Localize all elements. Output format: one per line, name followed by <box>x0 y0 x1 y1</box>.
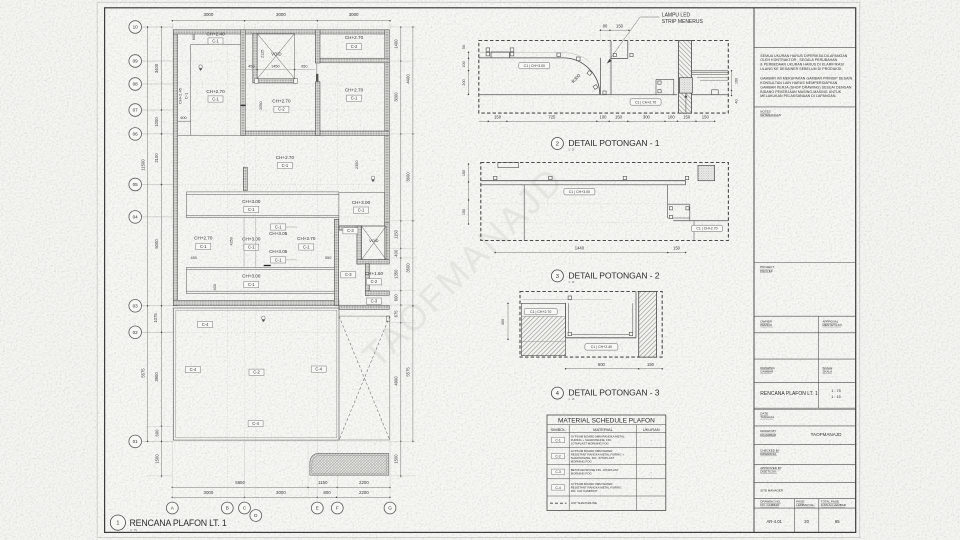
material table header <box>558 417 655 424</box>
svg-text:SIMBOL: SIMBOL <box>551 427 567 432</box>
svg-text:65: 65 <box>835 519 840 524</box>
wall vertical F middle <box>334 219 338 305</box>
svg-text:-: - <box>651 470 652 474</box>
label PROJECT PROYEK <box>760 265 774 273</box>
svg-text:C-3: C-3 <box>345 272 352 277</box>
detail 2 bottom dims <box>494 246 686 254</box>
detail 1 title <box>551 138 659 152</box>
title block vertical rules <box>795 316 819 532</box>
svg-text:100: 100 <box>668 115 676 120</box>
detail 3 light line <box>521 299 612 301</box>
svg-text:50: 50 <box>462 45 466 49</box>
wall right exterior lower <box>385 223 389 260</box>
detail 1 bottom dims <box>479 115 716 123</box>
svg-text:C-3: C-3 <box>347 228 354 233</box>
svg-text:20: 20 <box>804 519 809 524</box>
svg-text:CH+2.70: CH+2.70 <box>297 236 316 241</box>
svg-text:2100: 2100 <box>154 153 159 163</box>
svg-text:600: 600 <box>192 34 196 40</box>
detail 1 left step <box>491 52 509 58</box>
extension ticks right dims <box>391 27 416 476</box>
svg-text:2050: 2050 <box>259 101 263 109</box>
svg-text:4900: 4900 <box>394 376 399 386</box>
room label CH+2.45 C-1 rotated <box>178 87 189 104</box>
room label CH+2.70 C-2 topright <box>345 35 364 50</box>
svg-text:DIGAMBAR: DIGAMBAR <box>760 433 777 437</box>
svg-text:LEMBAR KE-: LEMBAR KE- <box>796 503 814 507</box>
wall band below C-3 <box>339 226 362 230</box>
svg-text:C-2: C-2 <box>351 44 358 49</box>
label DRAWING GAMBAR <box>760 366 775 374</box>
detail 1 construction lines <box>493 42 678 112</box>
room label CH+2.70 C-1 middle <box>276 155 295 169</box>
svg-text:3000: 3000 <box>204 490 214 495</box>
dim 550 <box>325 256 331 260</box>
material row C-1 <box>552 435 652 446</box>
svg-text:550: 550 <box>325 256 331 260</box>
svg-text:1500: 1500 <box>394 454 399 464</box>
svg-text:1150: 1150 <box>394 229 399 239</box>
svg-text:C1 | CH+2.70: C1 | CH+2.70 <box>530 310 551 314</box>
svg-text:5575: 5575 <box>140 368 145 378</box>
wall left exterior <box>173 30 177 306</box>
svg-text:KETERANGAN: KETERANGAN <box>760 113 781 117</box>
svg-text:5000: 5000 <box>154 239 159 249</box>
svg-text:800: 800 <box>323 490 331 495</box>
svg-text:TAOFMANAJD: TAOFMANAJD <box>811 432 842 437</box>
title block footer headers <box>760 500 847 508</box>
svg-text:150: 150 <box>673 246 681 251</box>
svg-text:1 : 75: 1 : 75 <box>831 389 841 393</box>
partition lines bathroom upper-left <box>178 44 241 135</box>
svg-text:1350: 1350 <box>394 269 399 279</box>
detail 1 led coffer <box>600 41 633 95</box>
svg-text:SKALA: SKALA <box>823 369 833 373</box>
drain marker upper-left <box>199 65 203 71</box>
detail 1 dashed border <box>479 41 729 114</box>
material table column headers <box>551 427 660 432</box>
svg-text:CH+2.70: CH+2.70 <box>345 88 364 93</box>
svg-text:CH+3.00: CH+3.00 <box>242 274 261 279</box>
svg-text:1500: 1500 <box>155 454 160 464</box>
svg-text:3000: 3000 <box>204 12 214 17</box>
dimension left outer column <box>140 26 148 442</box>
svg-text:3500: 3500 <box>406 263 411 273</box>
svg-text:450: 450 <box>191 256 197 260</box>
dim 450 kitchen <box>191 256 197 260</box>
svg-text:150: 150 <box>647 362 655 367</box>
void 1 cross <box>257 34 294 79</box>
svg-text:RENCANA PLAFON LT. 1: RENCANA PLAFON LT. 1 <box>130 518 227 528</box>
svg-text:CH+2.70: CH+2.70 <box>194 235 213 240</box>
svg-text:400: 400 <box>394 249 399 257</box>
extension ticks left dims <box>146 426 173 476</box>
detail 3 label C1 CH+2.40 <box>585 344 618 350</box>
svg-text:80: 80 <box>603 24 608 29</box>
svg-text:400: 400 <box>213 284 217 290</box>
svg-text:LAMPU LED: LAMPU LED <box>662 12 691 18</box>
porch hatched <box>310 453 389 475</box>
svg-text:DISETUJUI: DISETUJUI <box>760 470 776 474</box>
label APPROVED BY DISETUJUI <box>760 466 782 474</box>
grid row circles 10-01 <box>129 21 142 448</box>
svg-text:C1 | CH+3.00: C1 | CH+3.00 <box>569 190 590 194</box>
dim 600 niche <box>192 34 196 40</box>
dim 450/1450/950 void <box>245 64 315 70</box>
svg-text:5575: 5575 <box>406 367 411 377</box>
room label CH+3.05 C-1 lower <box>269 249 288 263</box>
svg-text:VOID: VOID <box>369 239 379 243</box>
svg-text:C1 | CH+2.40: C1 | CH+2.40 <box>591 345 612 349</box>
svg-text:CH+3.05: CH+3.05 <box>269 249 288 254</box>
svg-text:C-3: C-3 <box>555 470 561 474</box>
svg-text:5650: 5650 <box>235 480 245 485</box>
detail 1 lampu led note <box>607 12 704 63</box>
label SITE MANAGER <box>760 488 784 492</box>
svg-text:PROYEK: PROYEK <box>760 269 773 273</box>
svg-text:3900: 3900 <box>154 372 159 382</box>
detail 2 stipple block <box>698 166 715 181</box>
svg-text:DETAIL POTONGAN - 1: DETAIL POTONGAN - 1 <box>568 138 659 148</box>
detail 2 right step <box>668 185 729 241</box>
svg-text:1400: 1400 <box>394 39 399 49</box>
ceiling strip row05 <box>186 192 339 218</box>
svg-text:GAMBAR INI MERUPAKAN GAMBAR PR: GAMBAR INI MERUPAKAN GAMBAR PRINSIP DESA… <box>760 76 853 80</box>
room label CH+2.70 C-1 right <box>345 88 364 102</box>
svg-text:C-2: C-2 <box>278 107 285 112</box>
svg-text:DIPERIKSA: DIPERIKSA <box>760 452 776 456</box>
svg-text:CH+2.70: CH+2.70 <box>276 155 295 160</box>
svg-text:C-4: C-4 <box>190 367 197 372</box>
svg-text:450: 450 <box>248 64 254 68</box>
svg-text:725: 725 <box>548 115 556 120</box>
material row C-3 <box>552 468 652 476</box>
dim 400 strip <box>213 284 217 290</box>
svg-text:AR-4.01: AR-4.01 <box>767 519 783 524</box>
room label C-3 mid <box>341 272 356 278</box>
svg-text:1000: 1000 <box>154 117 159 127</box>
detail 3 hatched mass <box>521 303 565 355</box>
svg-text:1440: 1440 <box>575 246 585 251</box>
title block divider <box>753 8 755 533</box>
label VOID 1 <box>271 52 281 57</box>
detail 3 ceiling step <box>566 292 636 338</box>
svg-text:MELAKUKAN PELAKSANAAN DI LAPAN: MELAKUKAN PELAKSANAAN DI LAPANGAN. <box>760 94 836 98</box>
room label CH+2.70 C-2 void <box>272 99 291 113</box>
room label C-4 hall <box>198 321 213 327</box>
svg-text:MORNING FOG: MORNING FOG <box>571 472 593 476</box>
svg-text:MENYETUJUI: MENYETUJUI <box>823 323 842 327</box>
title block disclaimer paragraphs <box>760 54 853 98</box>
wall right exterior upper <box>385 30 389 223</box>
detail 1 label C1 CH+3.00 <box>519 62 550 68</box>
detail 1 hanger squares left <box>486 48 598 90</box>
svg-text:150: 150 <box>616 24 624 29</box>
wall row03 A-F <box>173 300 339 305</box>
title block drawing name and scale <box>760 389 840 399</box>
room label C-4 bottom <box>248 421 263 427</box>
dim 4250 <box>230 237 234 245</box>
svg-text:600: 600 <box>394 294 399 302</box>
svg-text:C-1: C-1 <box>212 96 219 101</box>
detail 1 slab lines right <box>692 71 729 95</box>
detail 3 bottom dims <box>565 362 663 370</box>
svg-text:DETAIL POTONGAN - 3: DETAIL POTONGAN - 3 <box>568 388 659 398</box>
svg-text:C-1: C-1 <box>248 282 255 287</box>
svg-text:3000: 3000 <box>276 490 286 495</box>
door opening wall E <box>316 63 318 82</box>
svg-text:1 : 16: 1 : 16 <box>568 281 575 284</box>
dimension bottom row1 5650/1150/2200 <box>172 480 391 488</box>
svg-text:GAMBAR KERJA (SHOP DRAWING) SE: GAMBAR KERJA (SHOP DRAWING) SESUAI DENGA… <box>760 85 852 89</box>
detail 2 construction lines <box>482 204 672 223</box>
room label CH+3.00 C-1 strip2 <box>242 274 261 288</box>
label DATE TANGGAL <box>760 412 774 420</box>
svg-text:C-1: C-1 <box>351 96 358 101</box>
wall vertical C upper <box>241 30 245 136</box>
material row shadowline <box>550 501 652 505</box>
svg-text:600: 600 <box>155 429 160 437</box>
partition lines kitchen rooms <box>244 218 256 268</box>
svg-text:1: 1 <box>116 521 119 527</box>
svg-text:C-1: C-1 <box>555 438 561 442</box>
svg-text:3000: 3000 <box>276 12 286 17</box>
detail 2 hanger squares <box>494 176 689 179</box>
svg-text:VOID: VOID <box>271 52 281 57</box>
svg-text:07: 07 <box>133 108 139 113</box>
room label CH+2.70 C-1 k1 <box>194 235 213 249</box>
detail 3 wall hatch <box>639 292 657 358</box>
svg-text:150: 150 <box>702 115 710 120</box>
grid row lines 01-10 <box>142 27 393 441</box>
svg-text:150: 150 <box>494 115 502 120</box>
detail 2 top notch <box>498 163 519 168</box>
detail 1 R300 text <box>571 73 582 85</box>
svg-text:150: 150 <box>615 115 623 120</box>
room label C-1 CH+3.05 upper <box>269 224 288 236</box>
svg-text:600: 600 <box>598 362 606 367</box>
detail 3 title <box>551 387 659 401</box>
dimension right inner column <box>394 26 402 477</box>
svg-text:C-1: C-1 <box>212 38 219 43</box>
svg-text:C-3: C-3 <box>371 299 378 304</box>
door mark wall C <box>240 104 246 106</box>
detail 2 label C1 CH+3.00 <box>564 189 595 195</box>
watermark TAOFMANAJD <box>354 158 571 375</box>
svg-text:UKURAN: UKURAN <box>643 427 660 432</box>
svg-text:3400: 3400 <box>154 63 159 73</box>
svg-text:2350: 2350 <box>355 160 359 168</box>
room label CH+3.00 C-1 strip1 <box>242 199 261 213</box>
svg-text:03: 03 <box>133 303 139 308</box>
dimension left inner column <box>153 26 162 477</box>
svg-text:600: 600 <box>180 116 186 120</box>
svg-text:150: 150 <box>683 115 691 120</box>
svg-text:09: 09 <box>133 59 139 64</box>
svg-text:-: - <box>651 438 652 442</box>
svg-text:KONSULTAN LAIN HARUS MEMPERSIA: KONSULTAN LAIN HARUS MEMPERSIAPKAN <box>760 81 837 85</box>
label OWNER PEMILIK <box>760 320 773 328</box>
svg-text:100: 100 <box>600 115 608 120</box>
svg-text:GAMBAR: GAMBAR <box>760 369 774 373</box>
room label C-4 right <box>311 366 326 372</box>
living room outline <box>174 308 340 440</box>
svg-text:3000: 3000 <box>394 92 399 102</box>
svg-text:2: 2 <box>556 142 559 148</box>
material row C-2 <box>552 449 652 464</box>
svg-text:C-2: C-2 <box>371 279 378 284</box>
detail 2 dims 150/150 <box>462 163 469 225</box>
detail 2 ceiling band <box>481 181 686 185</box>
svg-text:& PERBEDAAN UKURAN HARUS DI KL: & PERBEDAAN UKURAN HARUS DI KLARIFIKASI <box>760 63 844 67</box>
grid column lines A-G <box>172 24 390 503</box>
svg-text:STRIP MENERUS: STRIP MENERUS <box>662 19 704 25</box>
svg-text:3: 3 <box>556 274 559 280</box>
void1 band end caps <box>255 79 298 84</box>
detail 1 dims 50/100/200 <box>462 45 469 95</box>
svg-text:C-4: C-4 <box>202 322 209 327</box>
wall void1 left <box>253 33 257 83</box>
svg-text:FIN. CAT KAMPROT: FIN. CAT KAMPROT <box>571 489 598 493</box>
detail 1 curtain box <box>656 79 674 94</box>
svg-text:300: 300 <box>501 319 505 325</box>
svg-text:RENCANA PLAFON LT. 1: RENCANA PLAFON LT. 1 <box>760 391 818 397</box>
svg-text:CH+2.70: CH+2.70 <box>345 35 364 40</box>
svg-text:150: 150 <box>462 209 466 215</box>
svg-text:08: 08 <box>133 82 139 87</box>
svg-text:-: - <box>651 501 652 505</box>
svg-text:JOTAPLAST MORNING FOG: JOTAPLAST MORNING FOG <box>571 442 610 446</box>
room label CH+2.70 C-1 upperleft <box>206 89 225 102</box>
detail 1 ceiling CH+2.70 line <box>479 94 677 96</box>
svg-text:MORNING FOG: MORNING FOG <box>571 459 593 463</box>
label NOTES KETERANGAN <box>760 109 781 117</box>
svg-text:01: 01 <box>133 439 139 444</box>
dimension top 3000/3000/3000 <box>172 12 391 30</box>
plan title RENCANA PLAFON LT. 1 <box>110 515 227 532</box>
ceiling strip row03-04 <box>186 267 334 293</box>
svg-text:950: 950 <box>301 64 307 68</box>
room label C-3 upper <box>343 228 358 234</box>
detail 1 label C1 CH+2.70 <box>630 99 661 105</box>
wall vertical E upper <box>315 30 320 136</box>
svg-text:C-2: C-2 <box>253 370 260 375</box>
svg-text:C-1: C-1 <box>358 208 365 213</box>
dim 600 lower <box>180 116 186 120</box>
svg-text:C-4: C-4 <box>555 486 561 490</box>
svg-text:160: 160 <box>735 78 739 84</box>
svg-text:2200: 2200 <box>359 490 369 495</box>
svg-text:300: 300 <box>643 115 651 120</box>
room outline CH+3.00 right <box>339 193 385 226</box>
svg-text:C-1: C-1 <box>275 257 282 262</box>
detail 2 label C1 CH+2.70 <box>692 225 723 231</box>
wall top exterior <box>173 30 389 34</box>
svg-text:CH+3.00: CH+3.00 <box>242 236 261 241</box>
title block horizontal rules <box>754 48 856 509</box>
wall C-2 bottom <box>365 291 389 295</box>
svg-text:-: - <box>651 454 652 458</box>
room label CH+3.00 C-1 k2 <box>242 236 261 250</box>
svg-text:1 : 16: 1 : 16 <box>568 149 575 152</box>
svg-text:1 : 75: 1 : 75 <box>130 528 137 532</box>
svg-text:1150: 1150 <box>318 480 328 485</box>
svg-text:OLEH KONTRAKTOR , SEGALA PERUB: OLEH KONTRAKTOR , SEGALA PERUBAHAN <box>760 58 837 62</box>
svg-text:TANGGAL: TANGGAL <box>760 415 774 419</box>
room label C-2 living <box>249 369 264 375</box>
label VOID 2 <box>369 239 379 243</box>
detail 1 wall hatch <box>679 41 692 114</box>
svg-text:1450: 1450 <box>271 64 279 68</box>
svg-text:40: 40 <box>735 99 739 103</box>
svg-text:ULANG KE DESAINER SEBELUM DI P: ULANG KE DESAINER SEBELUM DI PRODUKSI. <box>760 67 842 71</box>
svg-text:BIDANG PEKERJAAN MASING-MASING: BIDANG PEKERJAAN MASING-MASING UNTUK <box>760 90 841 94</box>
dim 2350 <box>355 160 359 168</box>
svg-text:C1 | CH+2.70: C1 | CH+2.70 <box>635 100 656 104</box>
dim 2050 <box>259 101 263 109</box>
svg-text:C1 | CH+2.70: C1 | CH+2.70 <box>696 227 717 231</box>
wall row06 C-G <box>241 131 389 135</box>
svg-text:C-1: C-1 <box>282 163 289 168</box>
svg-text:675: 675 <box>394 310 399 318</box>
room label CH+2.40 C-1 <box>206 31 225 44</box>
void 2 cross <box>362 226 387 260</box>
svg-text:3600: 3600 <box>406 172 411 182</box>
label leader lines <box>286 227 297 260</box>
svg-text:2200: 2200 <box>359 480 369 485</box>
svg-text:CH+2.40: CH+2.40 <box>206 31 225 36</box>
svg-text:C-1: C-1 <box>303 244 310 249</box>
svg-text:DETAIL POTONGAN - 2: DETAIL POTONGAN - 2 <box>568 271 659 281</box>
drain marker right-middle <box>371 176 375 182</box>
wall stub middle <box>243 167 247 190</box>
svg-text:3000: 3000 <box>349 12 359 17</box>
svg-text:F: F <box>336 506 339 511</box>
svg-text:SITE MANAGER: SITE MANAGER <box>760 488 784 492</box>
svg-text:200: 200 <box>462 79 466 85</box>
svg-text:SEMUA UKURAN HARUS DIPERIKSA D: SEMUA UKURAN HARUS DIPERIKSA DILAPANGAN <box>760 54 847 58</box>
extension lines bottom <box>172 441 390 499</box>
svg-text:02: 02 <box>133 330 139 335</box>
svg-text:100: 100 <box>462 61 466 67</box>
room label C-3 lower <box>366 298 381 304</box>
svg-text:JUMLAH LEMBAR: JUMLAH LEMBAR <box>821 503 847 507</box>
svg-text:MATERIAL SCHEDULE PLAFON: MATERIAL SCHEDULE PLAFON <box>558 417 655 424</box>
svg-text:CH+2.45: CH+2.45 <box>178 87 183 104</box>
dimension bottom row2 3000/3000/800/2200 <box>172 490 391 498</box>
svg-text:MATERIAL: MATERIAL <box>593 427 613 432</box>
detail 1 dims 80/150 <box>600 24 630 46</box>
svg-text:NO. GAMBAR: NO. GAMBAR <box>760 503 780 507</box>
room label C-4 left <box>185 367 200 373</box>
svg-text:C-2: C-2 <box>555 455 561 459</box>
drawing frame <box>105 8 856 533</box>
detail 3 dim 300 <box>501 303 509 341</box>
wall row09 E-G <box>315 58 389 63</box>
svg-text:C-1: C-1 <box>248 245 255 250</box>
label CHECKED BY DIPERIKSA <box>760 448 780 456</box>
detail 2 vertical drop <box>523 185 525 241</box>
sheet outline <box>97 2 860 537</box>
detail 1 ceiling CH+3.00 line <box>479 53 600 95</box>
carport area with X <box>339 316 390 440</box>
svg-text:C-4: C-4 <box>252 421 259 426</box>
svg-text:B: B <box>226 506 229 511</box>
detail 3 dashed border <box>520 292 662 358</box>
svg-text:CH+3.00: CH+3.00 <box>242 199 261 204</box>
room label CH+1.60 C-2 <box>365 271 384 285</box>
label SCALE SKALA <box>823 366 833 374</box>
